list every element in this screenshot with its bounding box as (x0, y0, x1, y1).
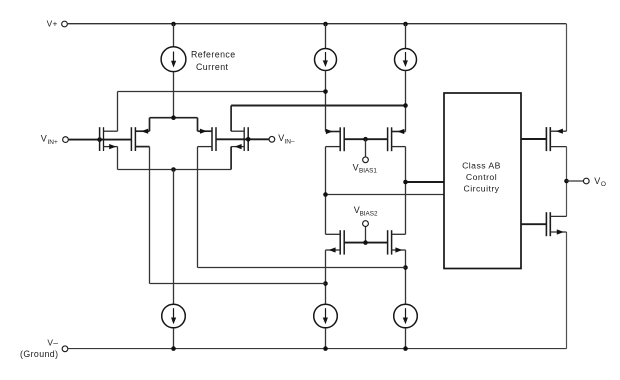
wire I6 to bottom rail (405, 328, 407, 348)
wire VIN- gate wire (216, 138, 269, 140)
wire right rail upper segment (566, 24, 568, 131)
terminal VBIAS1 (353, 157, 378, 175)
wire right rail middle segment through VO (566, 147, 568, 217)
terminal VIN+ (41, 134, 69, 146)
wire I5 to bottom rail (325, 328, 327, 348)
svg-text:(Ground): (Ground) (20, 349, 58, 359)
wire M4 drain up (230, 106, 232, 132)
junction top rail / I3 (403, 22, 408, 27)
wire M8 source down (405, 250, 407, 304)
transistor Q9 (output P-channel) (546, 127, 566, 151)
wire tail down to I4 (173, 170, 175, 305)
terminal VO (583, 176, 606, 188)
svg-text:Circuitry: Circuitry (464, 183, 500, 193)
wire M1 source down to tail (117, 147, 119, 170)
junction bottom rail / I5 (323, 346, 328, 351)
wire Class AB box to output PMOS gate (521, 138, 546, 140)
transistor Q10 (output N-channel) (546, 212, 566, 236)
wire I2 down to M5 source node (325, 71, 327, 132)
junction M4 drain line / I3 vertical (403, 103, 408, 108)
svg-text:BIAS1: BIAS1 (359, 168, 377, 175)
wire top rail to current source I3 (405, 24, 407, 49)
junction M1 drain line / I2 vertical (323, 89, 328, 94)
terminal V- (Ground) (20, 337, 68, 359)
svg-text:V: V (594, 176, 600, 186)
svg-text:V: V (278, 133, 284, 143)
transistor M5 (upper cascode left) (326, 127, 345, 151)
svg-text:V: V (353, 163, 359, 173)
svg-text:V–: V– (47, 337, 58, 347)
junction bottom rail / I6 (403, 346, 408, 351)
junction left cascode node (323, 192, 328, 197)
wire right cascode node tap to Class AB box (406, 181, 445, 183)
terminal V+ (47, 19, 68, 29)
svg-text:V+: V+ (47, 19, 58, 29)
transistor M2 (input P-channel, VIN+) (131, 127, 149, 151)
node M4 drain to M6 source (y=105.5) (231, 105, 405, 107)
label Reference Current (191, 50, 236, 72)
wire reference current to PMOS pair tail node (173, 72, 175, 118)
wire M1 drain up (117, 92, 119, 132)
svg-text:Class AB: Class AB (462, 160, 501, 170)
svg-text:IN–: IN– (284, 139, 295, 146)
wire M2 source up to bridge (149, 118, 151, 132)
wire bottom rail V- (68, 348, 566, 350)
wire top rail to current source I2 (325, 24, 327, 49)
junction M2 drain line / M7 source (323, 281, 328, 286)
wire M2 drain down (149, 147, 151, 284)
node M1 drain to M5 source (y=91.8) (118, 91, 326, 93)
svg-text:Control: Control (466, 172, 497, 182)
current source I2 (315, 49, 337, 71)
wire VBIAS1 stub (365, 139, 367, 156)
wire VBIAS2 gate wire (344, 242, 387, 244)
current source I6 (394, 304, 418, 328)
junction bridge / reference current (171, 115, 176, 120)
junction VIN- / M4 gate (246, 137, 251, 142)
wire M2 drain to M7 source node (150, 283, 326, 285)
wire I3 down to M6 source node (405, 71, 407, 132)
wire I4 to bottom rail (173, 328, 175, 348)
current source I5 (314, 304, 338, 328)
transistor M4 (input N-channel, VIN-) (231, 127, 248, 151)
junction top rail / reference current (171, 22, 176, 27)
Class AB Control Circuitry box U1 (444, 93, 521, 269)
junction VBIAS1 (363, 137, 368, 142)
svg-text:BIAS2: BIAS2 (360, 211, 378, 218)
transistor M8 (lower cascode right) (388, 230, 406, 254)
transistor M7 (lower cascode left) (326, 230, 345, 254)
svg-text:O: O (601, 181, 606, 188)
junction VIN+ / M1 gate (97, 137, 102, 142)
terminal VIN- (269, 133, 295, 145)
wire M6 drain down (right cascode node) (405, 147, 407, 235)
junction VO node (564, 179, 569, 184)
wire NMOS pair tail (118, 169, 232, 171)
junction bottom rail / I4 (171, 346, 176, 351)
transistor M6 (upper cascode right) (388, 127, 406, 151)
junction right cascode node (403, 180, 408, 185)
wire VO node to terminal (567, 180, 584, 182)
wire left cascode node tap to Class AB box (326, 194, 445, 196)
wire VBIAS2 stub (365, 227, 367, 243)
transistor M1 (input N-channel, VIN+) (100, 127, 118, 151)
junction top rail / I2 (323, 22, 328, 27)
wire M4 source down to tail (230, 147, 232, 170)
wire M3 drain to M8 source node (198, 267, 406, 269)
wire Class AB box to output NMOS gate (521, 223, 546, 225)
wire top rail V+ (68, 23, 567, 25)
transistor M3 (input P-channel, VIN-) (198, 127, 217, 151)
wire M3 drain down (197, 147, 199, 268)
wire M5 drain down (left cascode node) (325, 147, 327, 235)
svg-text:Reference: Reference (191, 50, 236, 60)
current source I1 Reference Current (161, 47, 186, 72)
current source I3 (395, 49, 417, 71)
wire M3 source up to bridge (197, 118, 199, 132)
wire PMOS pair source bridge (150, 117, 198, 119)
junction VBIAS2 (363, 240, 368, 245)
terminal VBIAS2 (354, 205, 378, 227)
svg-text:IN+: IN+ (48, 139, 59, 146)
wire M7 source down (325, 250, 327, 304)
junction tail / I4 (171, 167, 176, 172)
wire top rail to reference current source (173, 24, 175, 47)
junction M3 drain line / M8 source (403, 265, 408, 270)
svg-text:V: V (41, 134, 47, 144)
svg-text:Current: Current (196, 62, 229, 72)
current source I4 (tail sink) (162, 304, 186, 328)
wire VBIAS1 gate wire (344, 138, 387, 140)
wire VIN+ gate wire (69, 139, 132, 141)
wire right rail lower segment (566, 232, 568, 349)
